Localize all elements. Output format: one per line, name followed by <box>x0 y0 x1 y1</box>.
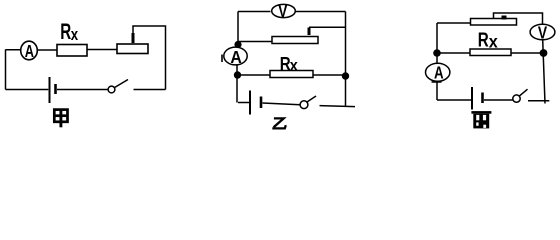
svg-text:V: V <box>278 2 287 21</box>
svg-text:x: x <box>290 57 299 75</box>
svg-text:x: x <box>71 26 79 45</box>
svg-text:R: R <box>60 20 71 44</box>
svg-text:A: A <box>25 42 34 62</box>
svg-text:V: V <box>538 23 547 43</box>
svg-text:A: A <box>230 47 241 67</box>
svg-text:R: R <box>478 28 489 51</box>
svg-text:x: x <box>489 32 498 52</box>
svg-text:A: A <box>434 64 444 83</box>
